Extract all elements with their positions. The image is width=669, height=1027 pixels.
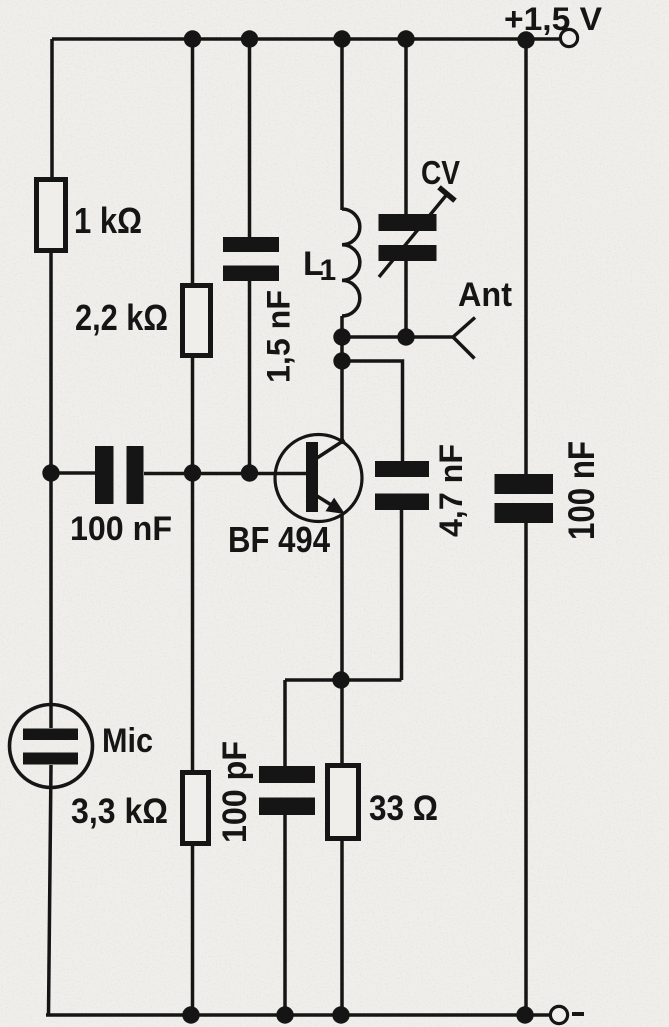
svg-text:BF 494: BF 494 bbox=[228, 519, 330, 560]
svg-text:100 pF: 100 pF bbox=[216, 741, 254, 843]
svg-text:1: 1 bbox=[320, 254, 337, 287]
svg-text:Ant: Ant bbox=[458, 276, 512, 314]
svg-text:33 Ω: 33 Ω bbox=[369, 789, 438, 828]
svg-text:1 kΩ: 1 kΩ bbox=[74, 200, 142, 241]
svg-text:Mic: Mic bbox=[102, 722, 153, 760]
svg-text:4,7 nF: 4,7 nF bbox=[433, 444, 469, 537]
svg-text:3,3 kΩ: 3,3 kΩ bbox=[71, 792, 168, 831]
svg-text:2,2 kΩ: 2,2 kΩ bbox=[75, 297, 168, 338]
svg-text:100 nF: 100 nF bbox=[70, 510, 172, 548]
svg-text:1,5 nF: 1,5 nF bbox=[261, 290, 297, 383]
svg-text:100 nF: 100 nF bbox=[561, 441, 602, 540]
svg-text:CV: CV bbox=[421, 154, 460, 191]
svg-text:+1,5 V: +1,5 V bbox=[504, 1, 603, 37]
